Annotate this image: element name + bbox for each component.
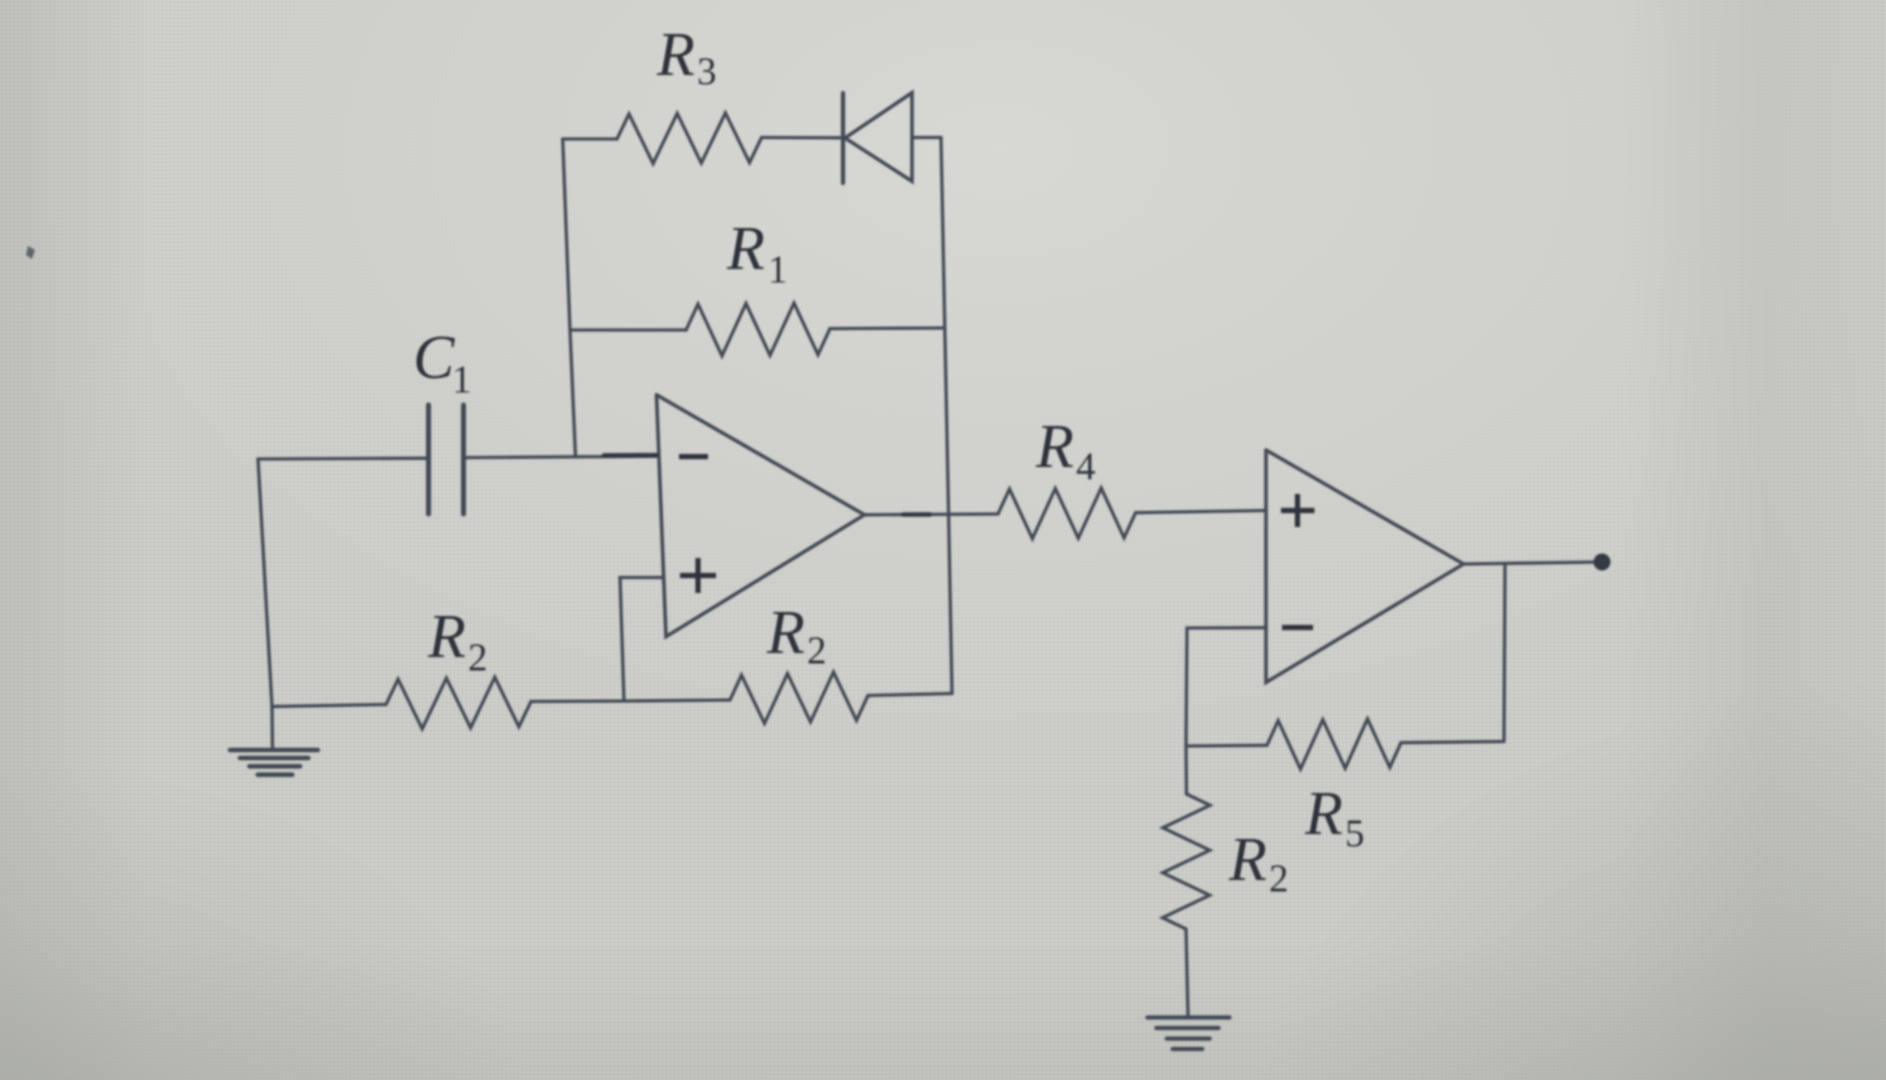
svg-text:R: R: [427, 603, 466, 671]
svg-text:C: C: [413, 324, 455, 392]
svg-text:3: 3: [697, 50, 717, 93]
svg-text:R: R: [656, 21, 695, 89]
svg-text:R: R: [726, 215, 765, 283]
svg-text:1: 1: [452, 358, 472, 401]
svg-text:2: 2: [1269, 857, 1289, 900]
svg-text:R: R: [1035, 413, 1074, 481]
svg-text:R: R: [766, 599, 805, 667]
svg-text:4: 4: [1076, 445, 1096, 488]
svg-text:2: 2: [807, 629, 827, 672]
svg-text:R: R: [1304, 780, 1343, 848]
svg-text:R: R: [1228, 826, 1267, 894]
svg-text:5: 5: [1345, 812, 1365, 855]
svg-text:1: 1: [768, 248, 788, 291]
svg-text:2: 2: [468, 636, 488, 679]
